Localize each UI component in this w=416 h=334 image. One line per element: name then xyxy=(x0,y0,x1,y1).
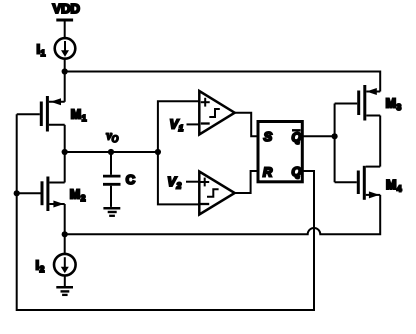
comparator A1 xyxy=(199,91,234,135)
label vO xyxy=(106,129,119,144)
svg-text:V2: V2 xyxy=(167,174,181,191)
transistor M3 xyxy=(335,85,381,121)
pin label Q xyxy=(292,165,302,179)
svg-text:vO: vO xyxy=(106,129,119,144)
SR latch U1 xyxy=(258,122,302,182)
svg-text:M2: M2 xyxy=(70,187,86,203)
pin label R xyxy=(263,164,273,179)
wire Q feedback to M1/M2 gates xyxy=(17,114,314,310)
wire top rail to M3 xyxy=(65,72,381,92)
svg-text:I1: I1 xyxy=(37,42,46,59)
svg-text:R: R xyxy=(263,164,273,179)
svg-text:Q: Q xyxy=(292,131,302,145)
label V2 xyxy=(167,174,181,191)
junction M2 gate on feedback rail xyxy=(14,190,20,196)
comparator A2 xyxy=(199,172,234,215)
wire I2 node down xyxy=(64,234,66,254)
junction vO to comparators branch xyxy=(155,149,161,155)
transistor M2 xyxy=(17,177,65,212)
svg-text:M3: M3 xyxy=(386,97,402,113)
wire I2 to ground xyxy=(64,276,66,288)
label M2 xyxy=(70,187,86,203)
current source I1 xyxy=(55,38,76,59)
label I2 xyxy=(36,258,45,275)
svg-text:I2: I2 xyxy=(36,258,45,275)
wire vO branch to comparator inputs xyxy=(158,101,199,204)
svg-text:M1: M1 xyxy=(71,108,87,124)
wire M1 drain to top rail xyxy=(64,72,66,102)
wire M1 source to vO node xyxy=(64,125,66,152)
wire Qbar to M3/M4 gate rail xyxy=(302,135,334,137)
junction I2 node xyxy=(62,231,68,237)
label V1 xyxy=(170,117,184,134)
wire A1 output to S input xyxy=(235,113,258,137)
svg-text:Q: Q xyxy=(292,165,302,179)
svg-text:S: S xyxy=(264,129,273,144)
net label VDD xyxy=(53,1,80,16)
gate rail of M3 and M4 xyxy=(334,104,336,183)
pin label Qbar xyxy=(292,130,302,144)
wire I1 to top node xyxy=(64,59,66,72)
junction at capacitor C xyxy=(108,149,114,155)
capacitor C xyxy=(103,152,121,207)
junction I1 output node xyxy=(62,68,68,74)
wire vO horizontal xyxy=(65,151,158,153)
label M3 xyxy=(386,97,402,113)
current source I2 xyxy=(54,254,76,276)
label C xyxy=(126,172,136,187)
VDD supply bar xyxy=(56,19,73,22)
label M4 xyxy=(386,178,402,194)
wire M2 drain to vO xyxy=(64,152,66,183)
svg-text:C: C xyxy=(126,172,136,187)
wire V2 to A2 noninverting input xyxy=(186,181,199,183)
transistor M4 xyxy=(335,166,381,200)
wire M2 source to I2 node xyxy=(64,204,66,234)
transistor M1 xyxy=(17,96,65,132)
wire V1 to A1 inverting input xyxy=(187,123,200,125)
junction gate rail xyxy=(332,133,338,139)
pin label S xyxy=(264,129,273,144)
junction vO node xyxy=(62,149,68,155)
svg-text:M4: M4 xyxy=(386,178,402,194)
wire M3 source to M4 drain xyxy=(379,116,381,167)
svg-text:V1: V1 xyxy=(170,117,184,134)
wire A2 output to R input xyxy=(235,171,258,193)
ground below C xyxy=(103,208,120,216)
label I1 xyxy=(37,42,46,59)
svg-text:VDD: VDD xyxy=(53,1,80,16)
wire I2 node to M4 source with crossover hop xyxy=(65,195,381,234)
wire VDD to I1 xyxy=(64,20,66,38)
label M1 xyxy=(71,108,87,124)
ground below I2 xyxy=(56,287,73,295)
